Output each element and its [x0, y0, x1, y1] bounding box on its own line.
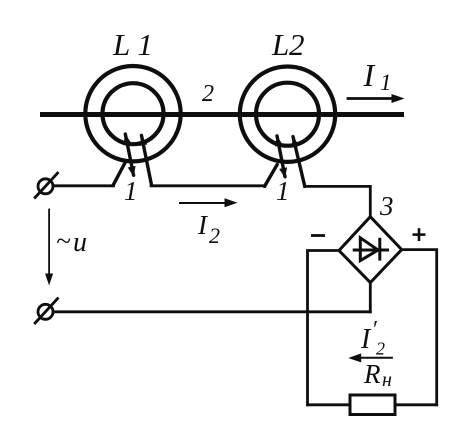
terminal (bottom input)	[34, 298, 58, 324]
wire: rectifier minus output (left)	[308, 251, 340, 405]
label plus	[413, 228, 426, 241]
svg-text:2: 2	[202, 81, 214, 107]
svg-text:L 1: L 1	[112, 27, 153, 62]
label RH	[363, 359, 392, 391]
svg-text:1: 1	[124, 176, 138, 206]
svg-text:1: 1	[276, 176, 290, 206]
wire: load bottom right	[394, 403, 437, 406]
current arrow I2-prime	[348, 353, 393, 362]
wire: primary conductor (bus 2)	[40, 112, 404, 117]
svg-text:н: н	[382, 369, 392, 391]
label ~u	[56, 226, 87, 258]
svg-text:u: u	[73, 227, 87, 258]
diode symbol inside bridge	[353, 238, 389, 261]
winding 1 on core L2	[265, 136, 305, 187]
svg-text:R: R	[363, 359, 381, 389]
wire: rectifier bottom vertex down	[369, 283, 372, 312]
svg-text:L: L	[271, 27, 289, 62]
svg-text:2: 2	[376, 339, 385, 359]
current arrow I2	[179, 198, 238, 207]
svg-text:I: I	[363, 57, 376, 93]
current arrow I1	[348, 94, 405, 103]
winding 1 on core L1	[113, 134, 152, 185]
rectifier bridge 3 (diamond)	[339, 217, 402, 283]
svg-text:I: I	[360, 324, 372, 355]
wire: winding L2 to rectifier top	[305, 186, 371, 217]
label I2	[197, 210, 220, 248]
label I2-prime	[360, 317, 385, 359]
label L2	[271, 27, 305, 62]
terminal (top input)	[34, 172, 58, 198]
label minus	[311, 234, 325, 237]
svg-text:~: ~	[56, 226, 71, 256]
svg-text:2: 2	[209, 223, 220, 248]
voltage arrow ~u	[45, 209, 53, 286]
wire: top terminal to winding L1	[53, 184, 114, 187]
resistor RH (load)	[350, 395, 395, 415]
wire: winding L1 to winding L2	[151, 184, 265, 187]
wire: bottom terminal to rectifier bottom	[53, 310, 370, 313]
label I1	[363, 57, 392, 95]
wire: rectifier plus output (right)	[402, 250, 437, 405]
core L1 (toroidal transformer core)	[85, 66, 180, 161]
wire: load bottom left	[308, 403, 352, 406]
svg-text:3: 3	[379, 191, 394, 221]
svg-text:2: 2	[289, 27, 305, 62]
core L2 (toroidal transformer core)	[240, 67, 335, 162]
svg-text:1: 1	[380, 70, 392, 95]
